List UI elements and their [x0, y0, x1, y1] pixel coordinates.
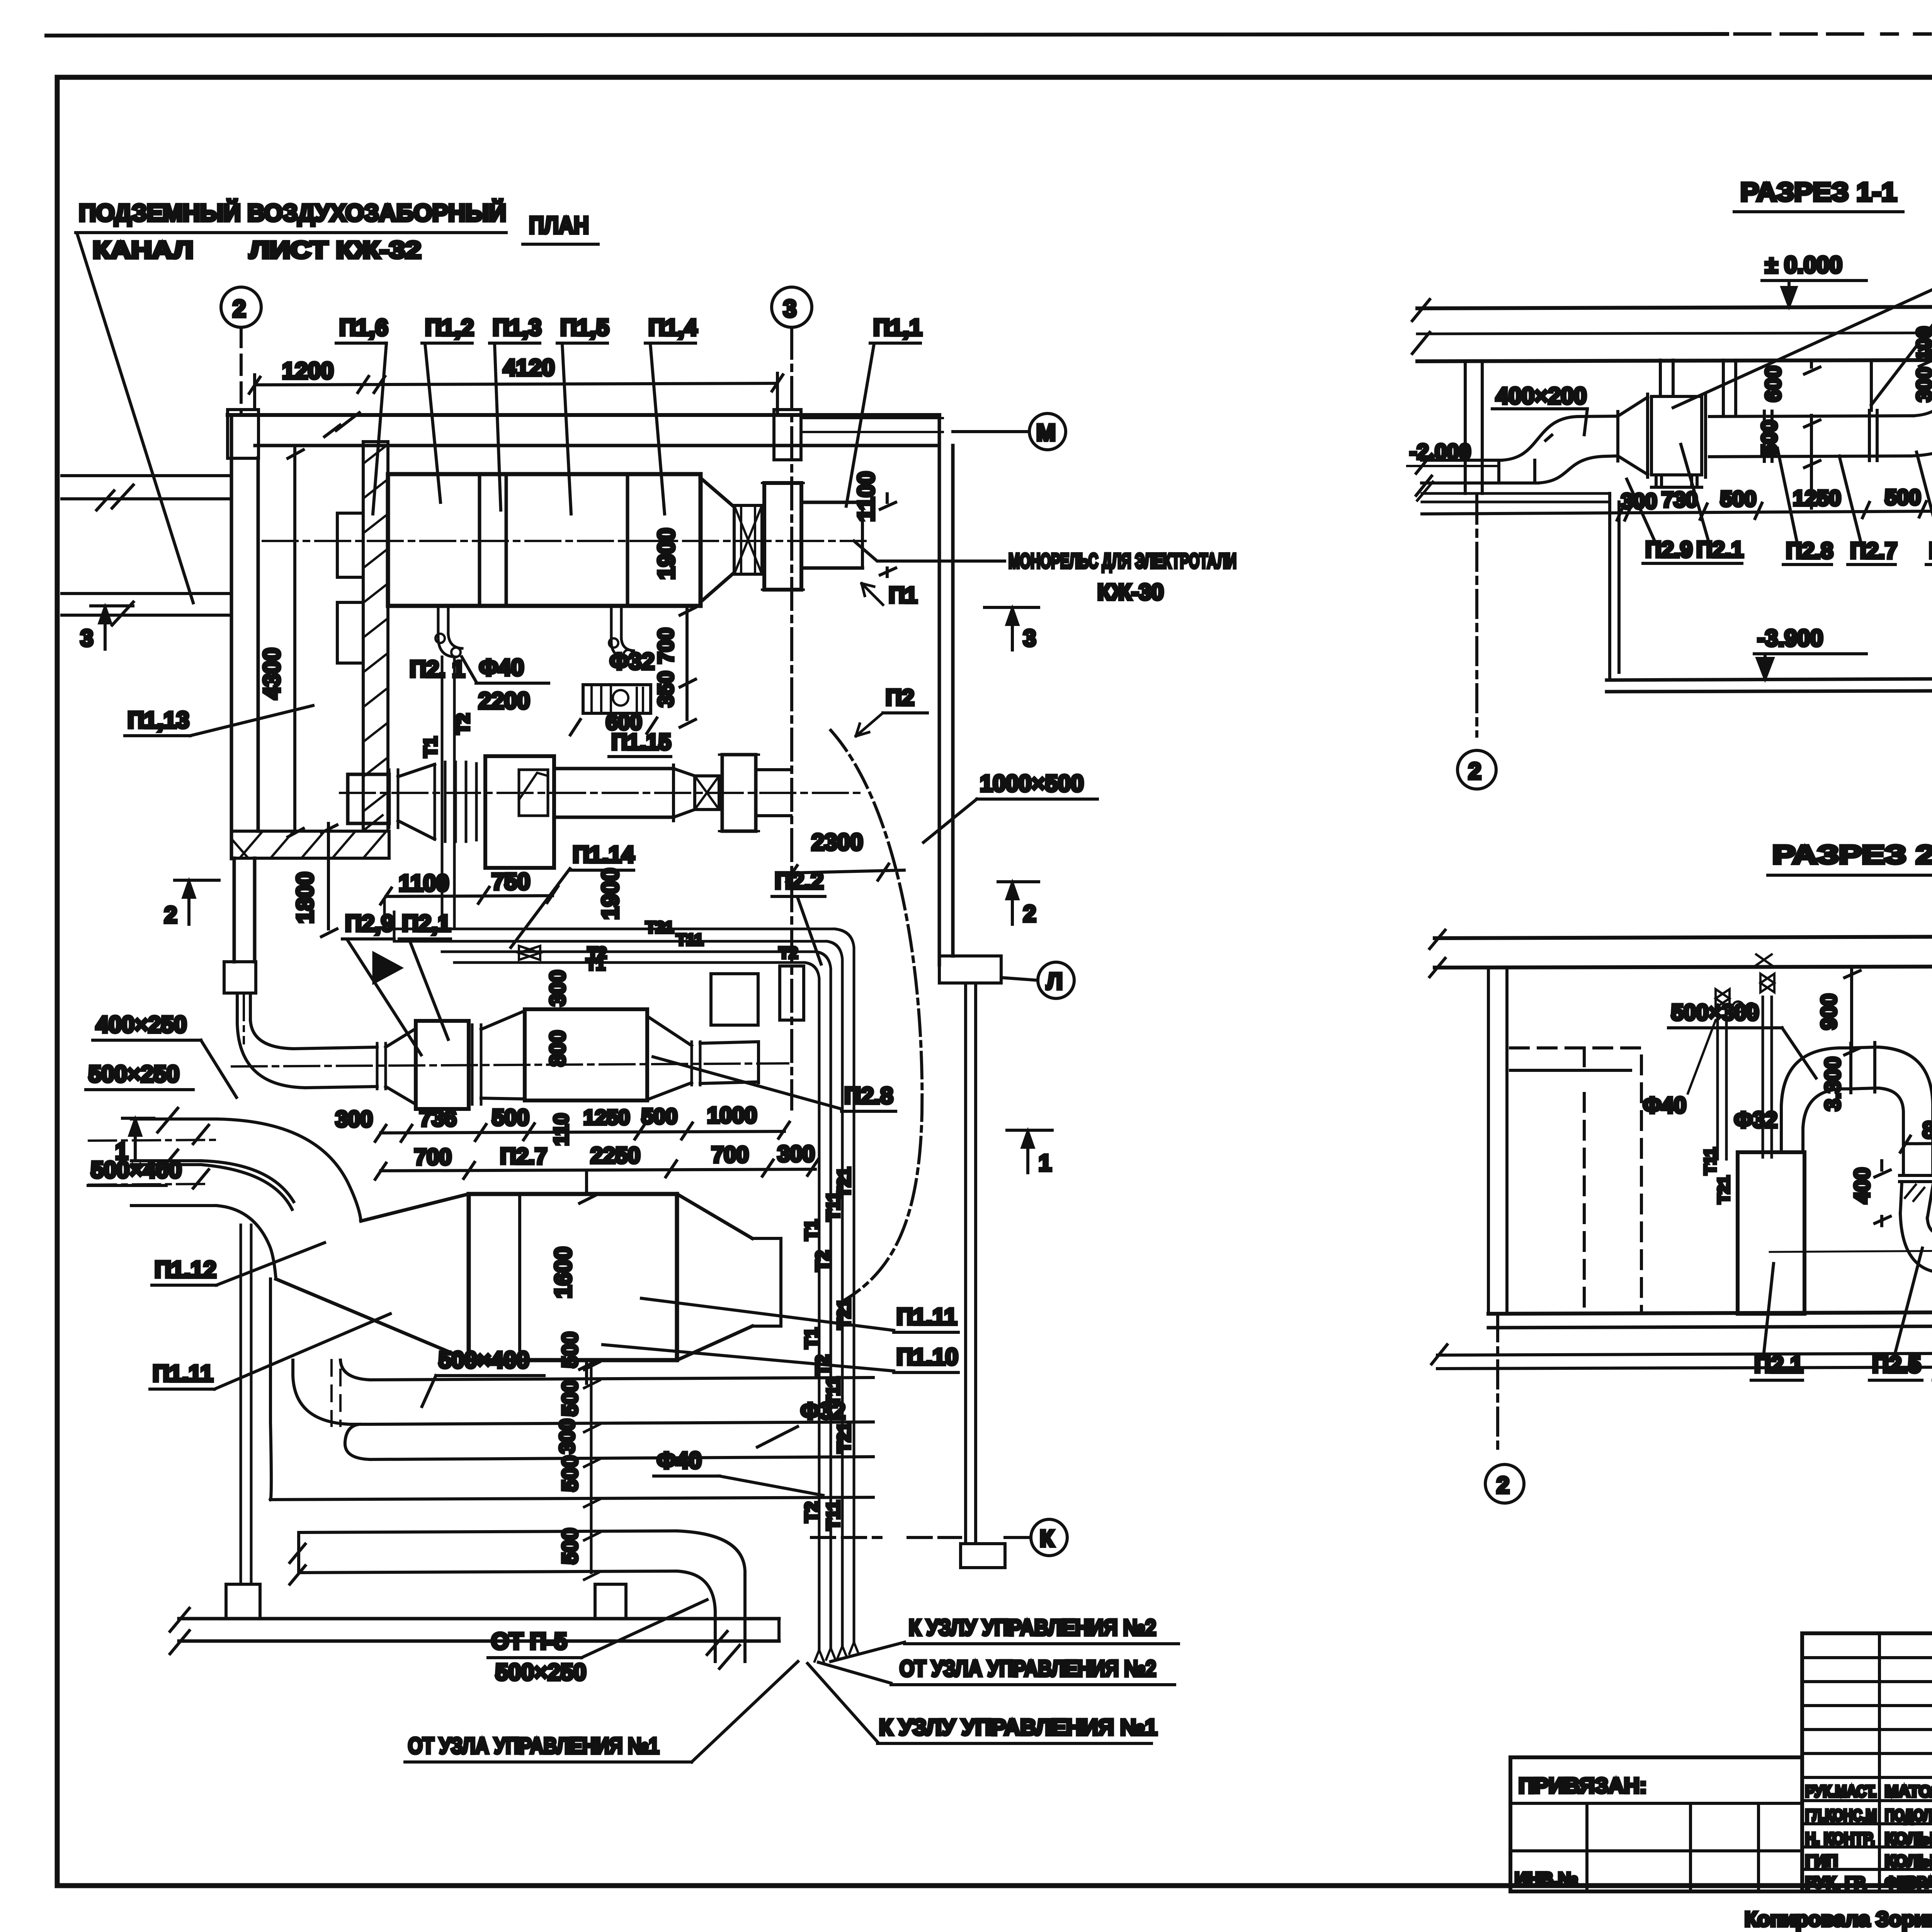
svg-text:Т2: Т2 — [453, 713, 473, 734]
entry break marks 2 — [193, 1125, 209, 1188]
svg-text:800: 800 — [1922, 1117, 1932, 1143]
svg-text:500: 500 — [492, 1105, 529, 1130]
svg-text:1100: 1100 — [853, 471, 879, 522]
cone flange — [1616, 412, 1619, 461]
svg-text:500: 500 — [558, 1528, 582, 1564]
fan feet — [1651, 475, 1702, 487]
svg-text:500: 500 — [1885, 485, 1921, 509]
pit left floor — [1417, 482, 1610, 502]
heater П1.6 block upper — [337, 513, 363, 577]
duct band3 — [299, 1531, 677, 1573]
cylinder П2.8 — [525, 1009, 647, 1100]
grid bubble К — [1031, 1519, 1067, 1556]
PLAN-TRAIN-4 (П1 big intake unit) — [86, 706, 1179, 1762]
svg-text:ПЛАН: ПЛАН — [529, 212, 589, 239]
svg-text:400×250: 400×250 — [96, 1012, 187, 1037]
wall tick mark — [325, 413, 359, 437]
unit main box — [388, 474, 701, 606]
svg-text:Т1: Т1 — [801, 1328, 821, 1349]
underline -3.900 — [1754, 652, 1866, 655]
SIGNATURE-TABLE — [1802, 1633, 1932, 1891]
svg-text:500: 500 — [558, 1380, 582, 1416]
section mark 2 right — [998, 882, 1039, 924]
leader 500x300 — [1782, 1028, 1816, 1078]
svg-text:П2.9: П2.9 — [1645, 537, 1692, 562]
long duct — [554, 769, 673, 817]
duct horizontal run — [1851, 1047, 1875, 1089]
svg-text:П2.8: П2.8 — [844, 1083, 893, 1109]
svg-text:ОТ УЗЛА УПРАВЛЕНИЯ №1: ОТ УЗЛА УПРАВЛЕНИЯ №1 — [408, 1733, 659, 1759]
pipe pair down to train2 — [442, 657, 454, 929]
transition cone to fan — [1618, 397, 1648, 474]
monorail leader — [854, 541, 1005, 561]
dim line top — [255, 383, 777, 385]
title underline — [1768, 874, 1932, 877]
svg-text:Φ40: Φ40 — [1643, 1093, 1686, 1118]
exit end — [757, 1044, 760, 1083]
leader П2.8 — [1777, 448, 1797, 541]
dim line 350-700 — [680, 606, 696, 727]
expanding cone — [386, 1029, 416, 1104]
leader 400x200 — [1584, 409, 1587, 435]
leader to hanger 1 — [1673, 270, 1932, 408]
svg-text:МАТОЯН: МАТОЯН — [1885, 1782, 1932, 1800]
svg-text:3: 3 — [1023, 625, 1036, 651]
svg-text:730: 730 — [1662, 487, 1697, 512]
heat pipes horizontal bundle — [384, 900, 835, 963]
svg-text:К УЗЛУ УПРАВЛЕНИЯ №2: К УЗЛУ УПРАВЛЕНИЯ №2 — [909, 1615, 1156, 1640]
svg-text:Т21: Т21 — [834, 1167, 854, 1198]
svg-text:1250: 1250 — [583, 1106, 630, 1129]
descending duct — [1903, 1113, 1932, 1175]
staff row lines — [1802, 1776, 1932, 1779]
end assembly box — [722, 755, 756, 831]
svg-text:РАЗРЕЗ 1-1: РАЗРЕЗ 1-1 — [1740, 177, 1897, 207]
divider П1.3/П1.5 — [505, 474, 508, 606]
hanger rods left — [1660, 360, 1736, 416]
signature table outline — [1802, 1633, 1932, 1891]
svg-text:500: 500 — [1720, 486, 1756, 511]
dim ticks 1100 — [880, 494, 896, 577]
exit duct — [700, 1042, 759, 1083]
svg-text:П1: П1 — [889, 583, 917, 608]
vert duct breaks — [707, 1631, 740, 1668]
grid 3 line dash-dot — [790, 327, 793, 1109]
section mark 2 left — [175, 880, 219, 924]
svg-text:П1.10: П1.10 — [896, 1344, 958, 1370]
svg-text:П2.2: П2.2 — [775, 868, 824, 894]
П2.2 white box on wall — [711, 974, 758, 1025]
floor band right end — [777, 1619, 781, 1641]
channel break upper — [97, 485, 133, 510]
wall column block left — [224, 962, 256, 993]
svg-text:110: 110 — [550, 1113, 573, 1146]
column base right — [595, 1584, 626, 1619]
svg-text:900: 900 — [1816, 994, 1841, 1030]
svg-text:2200: 2200 — [478, 688, 530, 714]
band1-band2 s-curve — [345, 1424, 370, 1459]
svg-text:П2,9: П2,9 — [345, 910, 394, 936]
row1 ticks — [375, 1122, 789, 1141]
svg-text:350: 350 — [653, 671, 678, 707]
hatch pattern vertical wall — [363, 444, 388, 831]
column name — [1878, 1633, 1881, 1891]
elevation underline — [1762, 279, 1866, 282]
ceiling breaks — [1430, 928, 1932, 977]
svg-text:Н. КОНТР.: Н. КОНТР. — [1805, 1829, 1875, 1847]
leader П2.9 — [1627, 479, 1654, 539]
svg-text:К: К — [1040, 1526, 1054, 1551]
bundle elbows to vertical — [804, 929, 854, 1182]
big unit box — [469, 1194, 677, 1360]
exit duct — [752, 1238, 781, 1326]
cone right — [677, 1194, 752, 1360]
svg-text:П2.7: П2.7 — [500, 1144, 547, 1169]
monorail block top — [774, 410, 801, 460]
grid bubble 2 — [1458, 750, 1496, 789]
leader to hanger 2 — [1871, 270, 1932, 405]
band dim line — [584, 1360, 600, 1580]
elevation arrow — [1782, 281, 1796, 306]
svg-text:ОТ УЗЛА УПРАВЛЕНИЯ №2: ОТ УЗЛА УПРАВЛЕНИЯ №2 — [900, 1656, 1156, 1681]
grid 2 dashline — [1496, 1314, 1499, 1450]
svg-text:300: 300 — [335, 1107, 373, 1132]
svg-text:П2.8: П2.8 — [1929, 538, 1932, 563]
flex hatch marks — [1905, 1185, 1924, 1201]
arrow -3.900 — [1757, 654, 1773, 679]
duct run 2 — [1875, 1047, 1879, 1088]
dim line row — [1422, 511, 1932, 514]
inner column 3 — [1757, 1803, 1760, 1891]
divider П1.5/П1.4 — [626, 474, 629, 606]
svg-text:П1,2: П1,2 — [425, 315, 474, 340]
svg-text:П2. 1: П2. 1 — [410, 656, 465, 682]
dim line 800-2300 — [1900, 1134, 1932, 1152]
svg-text:400×200: 400×200 — [1496, 383, 1587, 409]
exit duct right — [756, 770, 791, 816]
elbow down — [1879, 1047, 1932, 1113]
entry duct 500x400 lines — [131, 1165, 216, 1206]
right wall lower segment — [966, 986, 976, 1544]
duct drop at wall — [237, 993, 250, 1023]
svg-text:РАЗРЕЗ 2-2: РАЗРЕЗ 2-2 — [1772, 840, 1932, 869]
П2 riser dash-dot curve — [831, 730, 922, 1300]
floor line 2 — [1488, 1325, 1932, 1328]
svg-text:П1,6: П1,6 — [339, 315, 388, 340]
svg-text:К УЗЛУ УПРАВЛЕНИЯ №1: К УЗЛУ УПРАВЛЕНИЯ №1 — [879, 1715, 1157, 1740]
dim line ext — [255, 373, 777, 413]
duct band1 — [370, 1378, 873, 1424]
М stem — [953, 430, 1029, 433]
svg-text:Т1: Т1 — [586, 955, 605, 973]
column grid2 lower — [241, 1225, 251, 1584]
svg-text:700: 700 — [711, 1142, 749, 1167]
svg-text:П2.1: П2.1 — [1696, 537, 1743, 562]
svg-text:2: 2 — [233, 296, 246, 322]
svg-text:М: М — [1036, 420, 1056, 446]
column left — [1488, 968, 1507, 1314]
svg-text:2: 2 — [1023, 901, 1036, 927]
duct band2 — [270, 1457, 873, 1500]
fan box П1.1 side — [764, 483, 801, 590]
top wall line inner — [255, 444, 939, 447]
duct flange — [1851, 1043, 1875, 1093]
fan box flanges — [762, 483, 804, 590]
floor band left break — [170, 1608, 189, 1654]
duct rise from handler — [1781, 1106, 1803, 1152]
svg-text:-3.900: -3.900 — [1757, 625, 1823, 651]
svg-text:ГЛ.КОНС.М: ГЛ.КОНС.М — [1805, 1806, 1877, 1824]
svg-text:П1.11: П1.11 — [153, 1361, 213, 1386]
svg-text:500: 500 — [1757, 420, 1781, 456]
left wall lower segment — [234, 858, 255, 962]
svg-text:П1.15: П1.15 — [611, 730, 671, 755]
svg-text:Копировала Зорина: Копировала Зорина — [1745, 1908, 1932, 1931]
svg-text:ПОДОЛЬСКИЙ: ПОДОЛЬСКИЙ — [1885, 1806, 1932, 1824]
hatch pattern horizontal band — [232, 831, 386, 858]
svg-text:400: 400 — [1850, 1168, 1874, 1204]
elbow nest from entries to cone — [201, 1119, 361, 1279]
heater П1.15 — [583, 685, 651, 713]
pit wall vertical — [1610, 493, 1619, 679]
dim ticks top — [249, 375, 783, 393]
dim ticks — [1617, 501, 1932, 520]
monorail beam lines — [801, 418, 943, 432]
ATTACHED-BOX (ПРИВЯЗАН) — [1510, 1757, 1802, 1891]
valve pipes group — [1718, 997, 1772, 1159]
bundle bottom arrows — [815, 1642, 859, 1662]
svg-text:П2,1: П2,1 — [402, 910, 451, 936]
elbow up right — [1911, 372, 1932, 456]
svg-text:П2.8: П2.8 — [1786, 538, 1833, 563]
pipe drop 2 — [611, 606, 634, 658]
svg-text:1100: 1100 — [399, 870, 449, 896]
entry break marks — [158, 1108, 178, 1174]
divider П1.2/П1.3 — [478, 474, 481, 606]
elbow joint ticks — [1546, 435, 1552, 440]
hanger rod right — [1870, 360, 1873, 410]
section mark 3 right — [985, 607, 1039, 650]
svg-text:1000: 1000 — [707, 1103, 757, 1128]
floor breaks — [1432, 1305, 1932, 1370]
box outline — [1510, 1757, 1802, 1891]
П1.15 inner details — [592, 685, 643, 713]
drop elbow under unit — [293, 1360, 370, 1424]
svg-text:300: 300 — [777, 1141, 815, 1167]
hatched wall vertical — [363, 442, 388, 831]
svg-text:500×400: 500×400 — [91, 1157, 182, 1183]
svg-text:П1.12: П1.12 — [155, 1257, 216, 1282]
grid bubble 3 top — [772, 287, 812, 327]
svg-text:Φ40: Φ40 — [657, 1447, 702, 1473]
ceiling slab bottom line — [1435, 966, 1932, 968]
svg-text:КОЛЬЦОВА: КОЛЬЦОВА — [1885, 1829, 1932, 1847]
svg-text:2250: 2250 — [590, 1143, 640, 1168]
ceiling mid line — [1417, 332, 1932, 334]
exit duct П1.1 — [801, 502, 862, 568]
band3 right elbow down — [677, 1531, 745, 1662]
svg-text:ИНВ.№: ИНВ.№ — [1515, 1869, 1578, 1889]
leader П2.8b — [1917, 452, 1932, 541]
svg-text:2: 2 — [1497, 1472, 1509, 1498]
dim ticks 2300 — [777, 864, 904, 882]
svg-text:800: 800 — [545, 1031, 570, 1066]
underground channel duct upper — [62, 476, 231, 499]
channel break lower — [112, 602, 133, 625]
svg-text:П2.7: П2.7 — [1850, 538, 1897, 563]
svg-text:1: 1 — [1039, 1150, 1051, 1176]
svg-text:Т21: Т21 — [834, 1422, 854, 1453]
expanding cone — [398, 764, 435, 839]
ceiling slab bottom line — [1417, 359, 1932, 361]
svg-text:П2: П2 — [886, 685, 914, 710]
svg-text:ПРИВЯЗАН:: ПРИВЯЗАН: — [1519, 1773, 1647, 1798]
top wall left end block — [228, 410, 259, 458]
svg-text:П1,5: П1,5 — [560, 315, 609, 340]
svg-text:2: 2 — [164, 902, 177, 928]
flex joint flange — [1900, 1175, 1932, 1182]
svg-text:500×250: 500×250 — [88, 1061, 179, 1087]
svg-text:МОНОРЕЛЬС ДЛЯ ЭЛЕКТРОТАЛИ: МОНОРЕЛЬС ДЛЯ ЭЛЕКТРОТАЛИ — [1009, 549, 1236, 573]
svg-text:Т2: Т2 — [801, 1502, 821, 1522]
svg-text:П1.14: П1.14 — [573, 842, 635, 867]
svg-text:П1,13: П1,13 — [128, 707, 189, 733]
fan axis line — [1770, 1250, 1932, 1252]
svg-text:750: 750 — [492, 869, 530, 895]
section mark 1 left — [122, 1118, 154, 1161]
cone to flex — [701, 478, 734, 602]
svg-text:500: 500 — [558, 1332, 582, 1368]
grid bubble М — [1029, 413, 1066, 450]
svg-text:1250: 1250 — [1793, 486, 1841, 510]
column base left — [226, 1584, 260, 1619]
svg-text:2: 2 — [1468, 758, 1481, 784]
svg-text:4300: 4300 — [259, 648, 285, 699]
filter box П2.1 — [416, 1021, 469, 1109]
intake box — [348, 774, 389, 823]
К grid dash line — [811, 1536, 961, 1539]
inner column 2 — [1689, 1803, 1692, 1891]
note leader — [77, 234, 193, 603]
duct flange ticks — [1764, 410, 1877, 461]
vert dim ticks mid — [1804, 360, 1820, 508]
row2 ticks — [375, 1159, 818, 1179]
flex X box train2 — [695, 776, 719, 810]
right wall upper segment — [939, 415, 953, 965]
svg-text:КЖ-30: КЖ-30 — [1097, 580, 1164, 605]
title underline — [1734, 210, 1903, 213]
svg-text:736: 736 — [419, 1106, 457, 1131]
svg-text:Т11: Т11 — [823, 1377, 843, 1406]
train2 centerline — [340, 792, 866, 794]
svg-text:Т21: Т21 — [646, 918, 673, 936]
hatched wall horizontal band — [231, 831, 389, 858]
svg-text:П1,1: П1,1 — [873, 315, 922, 340]
ceiling slab top line — [1417, 306, 1932, 308]
entry duct 500x250 — [131, 1119, 216, 1161]
ceiling slab top line — [1435, 936, 1932, 938]
svg-text:Т21: Т21 — [1714, 1176, 1733, 1204]
svg-text:2300: 2300 — [811, 829, 863, 855]
wall block at К — [961, 1544, 1005, 1568]
svg-text:3.300: 3.300 — [1820, 1057, 1845, 1111]
box П1.14 area — [485, 756, 554, 868]
ceiling break left — [1412, 299, 1430, 354]
valve circles φ32 — [609, 638, 618, 648]
section mark 1 right — [1007, 1130, 1052, 1173]
PLAN-TRAIN-1 (П1 upper unit) — [263, 315, 922, 929]
section mark 3 left — [91, 606, 133, 649]
svg-text:500: 500 — [558, 1456, 582, 1492]
leader φ40 circles — [1688, 1002, 1757, 1094]
PLAN-TRAIN-2 (П1 middle fan line) — [292, 755, 904, 1182]
closet inner solid — [1510, 1069, 1631, 1072]
underline 400x200 — [1492, 407, 1587, 410]
svg-text:ПОДЗЕМНЫЙ ВОЗДУХОЗАБОРНЫЙ: ПОДЗЕМНЫЙ ВОЗДУХОЗАБОРНЫЙ — [79, 199, 506, 226]
PLAN-TRAIN-3 (П2 unit row) — [232, 970, 896, 1179]
dim line train2 — [381, 886, 558, 904]
band2 left elbow outer — [270, 1279, 271, 1500]
svg-text:Т21: Т21 — [834, 1299, 854, 1329]
svg-text:ФЕВРАЛЕВА: ФЕВРАЛЕВА — [1885, 1873, 1932, 1891]
wall block at Л — [939, 956, 1001, 983]
cone narrow right — [647, 1016, 692, 1100]
floor lower band — [1437, 1352, 1932, 1369]
floor line top — [1488, 1311, 1932, 1314]
flange plates — [389, 770, 398, 828]
cone expand 2 — [481, 1011, 525, 1099]
air handler П2.1 box — [1738, 1152, 1804, 1314]
dim line 4300 — [288, 447, 303, 837]
valve symbols — [1716, 989, 1730, 1008]
transition — [673, 769, 695, 817]
ribbed flex rings — [435, 762, 476, 842]
band3 left cap — [290, 1532, 305, 1584]
svg-text:Φ32: Φ32 — [610, 648, 655, 674]
empty row lines — [1802, 1656, 1932, 1659]
dim 400 left ticks — [1875, 1161, 1890, 1226]
pipe bundle vertical — [819, 1182, 854, 1650]
svg-text:П1.11: П1.11 — [896, 1304, 957, 1330]
svg-text:Т11: Т11 — [1701, 1148, 1719, 1175]
inner rect with diagonal — [519, 770, 548, 816]
top binding line — [46, 34, 1727, 36]
dim 900 line — [1845, 968, 1860, 1055]
svg-text:Т2: Т2 — [779, 944, 798, 962]
dim row1 — [381, 1131, 784, 1133]
grid bubble Л — [1038, 962, 1074, 998]
svg-text:РУК. ГР.: РУК. ГР. — [1805, 1873, 1867, 1891]
elbow up-right from handler — [1781, 1048, 1851, 1128]
top wall line outer — [228, 413, 939, 417]
bottom floor band — [179, 1619, 779, 1641]
train1 centerline — [263, 540, 866, 542]
К stem — [1005, 1536, 1031, 1539]
underground channel duct lower — [62, 594, 231, 615]
leader П2.5 — [1895, 1248, 1922, 1352]
leader П2.1 — [1681, 444, 1708, 539]
duct run to right — [1709, 416, 1913, 457]
Л stem — [1001, 978, 1038, 980]
inner divider — [518, 1194, 521, 1360]
inner row line 2 — [1510, 1849, 1802, 1852]
svg-text:РУК.МАСТ.: РУК.МАСТ. — [1805, 1782, 1877, 1800]
svg-text:700: 700 — [653, 628, 678, 664]
inner column 1 — [1585, 1803, 1588, 1891]
elbow up to horizontal run — [1502, 416, 1618, 460]
svg-text:1900: 1900 — [653, 528, 679, 580]
elbow bottom to fan — [1900, 1213, 1932, 1273]
